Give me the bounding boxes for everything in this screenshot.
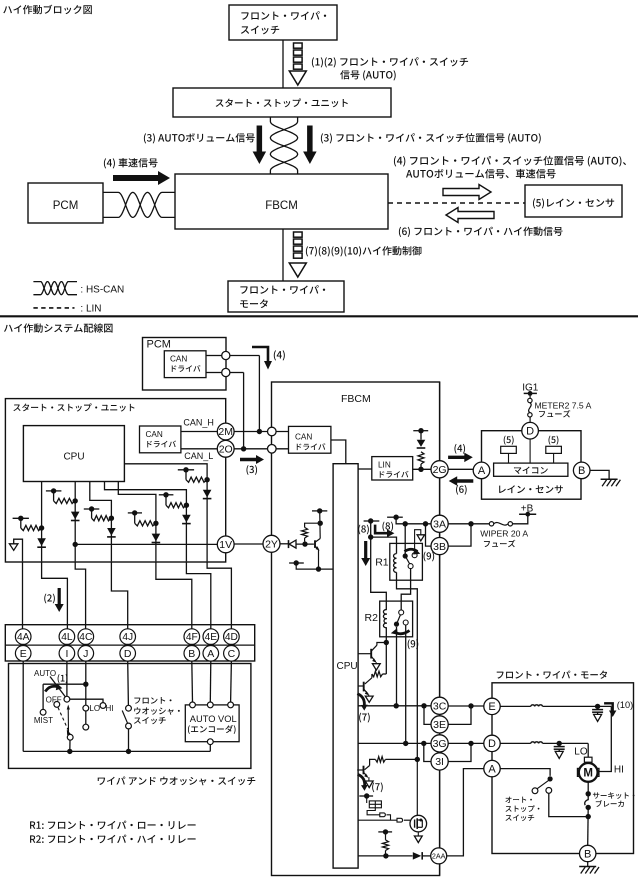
block start stop unit bbox=[173, 88, 391, 117]
svg-text:R1: R1 bbox=[375, 556, 389, 568]
dashed LIN link FBCM to rain sensor bbox=[388, 202, 525, 204]
Q5 emitter wire bbox=[318, 550, 320, 569]
arrow (8) down bbox=[361, 541, 370, 566]
wire switch to unit bbox=[282, 40, 284, 88]
junction R2 coil bbox=[384, 640, 389, 645]
svg-text:4C: 4C bbox=[79, 632, 92, 643]
pin 4F bbox=[184, 629, 200, 645]
wire fuse to D bbox=[529, 417, 531, 422]
arrow (7) upper bbox=[357, 694, 369, 723]
diode D3 bbox=[289, 540, 297, 548]
R2 contact top bbox=[399, 610, 404, 615]
junction bus 1 bbox=[67, 749, 72, 754]
svg-text:C: C bbox=[228, 648, 236, 660]
wire 3A to R1 contact bbox=[404, 524, 406, 556]
svg-text:B: B bbox=[188, 648, 195, 660]
pin 4E bbox=[203, 629, 219, 645]
wire 3G-3I edge bbox=[439, 752, 441, 753]
wire D to micon bbox=[529, 439, 531, 463]
encoder pin top3 bbox=[228, 702, 234, 708]
choke L1 bbox=[531, 705, 543, 707]
resistor R6 bbox=[383, 832, 389, 856]
arrow (6) from sensor bbox=[449, 476, 474, 495]
svg-text:A: A bbox=[207, 648, 214, 660]
wire pump to gate1 bbox=[367, 808, 380, 815]
legend R2 bbox=[30, 835, 196, 844]
wire 3C to E bbox=[448, 705, 484, 707]
wire tap to collector bbox=[319, 511, 322, 539]
wire 2G-3A edge bbox=[439, 478, 441, 516]
svg-text:CPU: CPU bbox=[337, 661, 358, 672]
legend HS-CAN twisted pair bbox=[33, 282, 124, 296]
block front wiper motor bbox=[228, 281, 344, 312]
fuse METER2 bbox=[528, 398, 532, 417]
contact MIST bbox=[40, 709, 46, 715]
rain pin A bbox=[473, 462, 490, 479]
wire CPU out 3 bbox=[90, 482, 112, 562]
lever travel dashed bbox=[58, 708, 72, 736]
svg-text:WIPER 20 A: WIPER 20 A bbox=[480, 529, 528, 539]
svg-text:2O: 2O bbox=[219, 444, 233, 456]
svg-text:HI: HI bbox=[614, 764, 624, 775]
tap emitter rail bbox=[289, 560, 304, 565]
svg-text:HI: HI bbox=[106, 704, 114, 713]
twisted pair unit to FBCM bbox=[270, 118, 297, 175]
svg-text:2G: 2G bbox=[433, 464, 447, 476]
arrow (8) bent bbox=[375, 522, 394, 538]
pin 2M bbox=[217, 423, 234, 440]
pin 3E bbox=[431, 716, 448, 733]
R1 NO wire bbox=[415, 530, 425, 553]
title block diagram bbox=[3, 5, 92, 15]
pin B switch bbox=[184, 646, 200, 662]
arrow (10) bent bbox=[604, 700, 633, 717]
section divider bbox=[0, 315, 638, 317]
wire IG1 to fuse bbox=[529, 393, 531, 398]
label CAN_L bbox=[184, 451, 213, 461]
svg-text:1V: 1V bbox=[219, 539, 232, 551]
label front wiper motor bbox=[497, 671, 607, 679]
wire 3C-3E bridge bbox=[424, 706, 431, 725]
junction HI cap bbox=[595, 704, 600, 709]
label (7)(8)(9)(10) high operation control bbox=[306, 246, 422, 256]
junction autostop bbox=[586, 814, 591, 819]
svg-text:LO: LO bbox=[89, 704, 100, 713]
svg-text:M: M bbox=[583, 768, 593, 780]
label (6) front wiper high operation signal bbox=[399, 227, 563, 237]
wire LO to motor bbox=[587, 743, 589, 757]
pullup tap bbox=[413, 428, 428, 433]
svg-text:J: J bbox=[83, 648, 88, 660]
arrow (9) R1 bbox=[405, 548, 435, 561]
junction 3C-3E bbox=[421, 703, 426, 708]
label HI bbox=[614, 764, 624, 775]
junction LO cap bbox=[557, 741, 562, 746]
svg-text:A: A bbox=[488, 764, 496, 776]
label rain sensor bbox=[499, 485, 563, 493]
label IG1 bbox=[522, 383, 539, 394]
mosfet Q4 bbox=[410, 815, 427, 832]
encoder pin top2 bbox=[207, 702, 213, 708]
resistor R4 bbox=[372, 671, 386, 677]
svg-text:3B: 3B bbox=[433, 541, 446, 553]
svg-text:: HS-CAN: : HS-CAN bbox=[80, 284, 124, 295]
start-stop unit box bbox=[5, 399, 225, 562]
Q1 emitter ground bbox=[372, 662, 380, 670]
svg-text:2Y: 2Y bbox=[265, 539, 278, 551]
Q3 emitter ground bbox=[365, 777, 373, 787]
pin 3I bbox=[431, 753, 448, 770]
R2 pivot bbox=[394, 622, 399, 627]
label (3) AUTO volume signal bbox=[144, 133, 255, 143]
encoder pin bottom bbox=[207, 739, 213, 745]
label AUTO bbox=[34, 669, 56, 678]
arrow (4) vehicle speed bbox=[113, 171, 170, 185]
LIN driver U5 bbox=[372, 457, 413, 480]
transistor Q3 bbox=[357, 759, 375, 778]
wire rail to CPU bbox=[296, 563, 333, 569]
front wiper motor box bbox=[492, 683, 634, 854]
wire to pin 4J bbox=[111, 561, 127, 629]
resistor R7 bbox=[302, 523, 320, 541]
R2 coil bbox=[383, 610, 387, 628]
arrow (4) to sensor bbox=[448, 444, 473, 462]
wire C to encoder bbox=[230, 661, 233, 702]
wire choke to HI node bbox=[543, 705, 612, 707]
transistor Q1 bbox=[358, 643, 386, 663]
pin 2G bbox=[431, 461, 448, 478]
tap pulldown bbox=[378, 829, 392, 834]
cell3 tap resistor diode bbox=[84, 506, 116, 537]
wire R1 contact to R2 bbox=[401, 569, 410, 610]
R1 contact NO bbox=[412, 553, 417, 558]
svg-text:E: E bbox=[488, 701, 495, 713]
junction MIST branch bbox=[83, 682, 88, 687]
label (1)(2) front wiper switch signal bbox=[312, 57, 468, 80]
pin 4C bbox=[78, 629, 94, 645]
wire to pin 4A bbox=[22, 561, 24, 629]
label OFF bbox=[46, 696, 62, 705]
wire motor to breaker bbox=[587, 782, 589, 800]
cell1 tap resistor diode bbox=[13, 516, 46, 548]
svg-text:E: E bbox=[20, 648, 27, 660]
wire CPU out 5 bbox=[105, 482, 187, 562]
tap Q4 gate bbox=[359, 793, 373, 798]
micon box bbox=[494, 463, 568, 476]
wire 3A-3B edge bbox=[439, 532, 441, 537]
wire diode to 2AA bbox=[423, 855, 431, 857]
wire CAN driver to pin B bbox=[206, 372, 222, 374]
svg-text:3C: 3C bbox=[433, 701, 447, 713]
capacitor C4 to ground bbox=[554, 743, 565, 758]
wire 2Y to diode bbox=[280, 543, 289, 545]
rain pin D bbox=[522, 422, 539, 439]
junction 3A-R1 bbox=[403, 521, 408, 526]
wire 3I bridge outside bbox=[448, 743, 471, 761]
arrow (3) left bbox=[253, 126, 267, 165]
svg-text:4L: 4L bbox=[61, 632, 73, 643]
tap (8) right bbox=[387, 515, 403, 520]
junction LIN bbox=[418, 467, 423, 472]
junction E-3E bbox=[468, 703, 473, 708]
contact OFF bbox=[54, 702, 60, 708]
wire CPU to 3G bbox=[358, 742, 431, 744]
washer contact bottom bbox=[126, 723, 132, 729]
svg-text:4A: 4A bbox=[17, 632, 30, 643]
svg-text:2M: 2M bbox=[218, 426, 233, 438]
pin 4L bbox=[59, 629, 75, 645]
pin 2O bbox=[217, 440, 234, 457]
wire to pin 4D bbox=[207, 561, 231, 629]
FBCM pass-through node CAN_H bbox=[268, 427, 277, 436]
FBCM box bbox=[272, 382, 440, 876]
wire A to autostop bbox=[500, 769, 550, 776]
wire LIN driver to 2G bbox=[413, 468, 432, 470]
pin 4A bbox=[15, 629, 31, 645]
wire R2 coil feed bbox=[371, 537, 387, 610]
+B rail bbox=[519, 504, 536, 517]
label CAN_H bbox=[183, 418, 214, 428]
wire 3A to fuse bbox=[448, 523, 489, 525]
FBCM right edge top bbox=[439, 382, 441, 461]
R1 coil bbox=[394, 554, 397, 573]
svg-text:A: A bbox=[478, 465, 486, 477]
svg-text:4F: 4F bbox=[186, 632, 198, 643]
wire CPU out 2 bbox=[74, 482, 76, 562]
svg-text:(10): (10) bbox=[617, 700, 633, 710]
encoder pin top1 bbox=[190, 702, 196, 708]
label (4) position+volume+speed signals bbox=[394, 156, 626, 179]
cell2 tap resistor diode bbox=[46, 488, 80, 520]
svg-text:PCM: PCM bbox=[147, 339, 171, 351]
arrow (4) bent bbox=[252, 347, 285, 370]
label (3) front wiper switch position signal bbox=[321, 133, 541, 143]
svg-text:B: B bbox=[578, 465, 585, 477]
wire diode to base bbox=[296, 543, 314, 545]
R2 contact side bbox=[403, 620, 408, 625]
tap (8) left bbox=[364, 518, 380, 523]
buffer gate 2 bbox=[397, 818, 403, 822]
junction drain line bbox=[415, 757, 420, 762]
wire CPU out 4 bbox=[118, 482, 156, 562]
wire 3I-2AA edge bbox=[439, 770, 441, 848]
wire CPU to gate2 bbox=[358, 819, 397, 821]
pin C switch bbox=[224, 646, 240, 662]
wire 3G-3I bridge bbox=[424, 743, 431, 761]
junction bus 2 bbox=[126, 749, 131, 754]
svg-text:AUTO: AUTO bbox=[34, 669, 56, 678]
pin 3C bbox=[431, 697, 448, 714]
rotary switch common contact bbox=[64, 696, 70, 702]
pin J switch bbox=[78, 646, 94, 662]
label WIPER fuse bbox=[480, 529, 528, 548]
wire CPU to 3C bbox=[358, 705, 431, 707]
wire tap to R1 coil bbox=[368, 521, 397, 554]
wire tap to 3A bbox=[396, 517, 431, 524]
wire E to ground bus bbox=[22, 661, 24, 752]
svg-text:MIST: MIST bbox=[34, 716, 53, 725]
PCM pin A bbox=[222, 351, 230, 359]
label (5) c1 bbox=[504, 436, 514, 445]
contact below LO bbox=[83, 724, 89, 730]
diode D2 bbox=[413, 852, 422, 860]
wire washer to bus bbox=[128, 729, 130, 752]
svg-text:CAN_H: CAN_H bbox=[183, 418, 214, 428]
FBCM pass-through node CAN_L bbox=[268, 445, 277, 454]
wire 2AA-corner edge bbox=[439, 864, 441, 875]
PCM box bbox=[143, 338, 227, 391]
wire 3E bridge outside bbox=[448, 706, 471, 724]
label (4) vehicle speed signal bbox=[104, 158, 158, 168]
cell6 tap resistor diode bbox=[178, 467, 212, 499]
svg-text:B: B bbox=[584, 848, 591, 860]
svg-text:3I: 3I bbox=[435, 756, 444, 768]
cell5 tap resistor diode bbox=[159, 492, 191, 524]
outline arrow (4) to rain sensor bbox=[443, 185, 491, 200]
ground bus bbox=[23, 750, 210, 752]
junction 3A-3B bbox=[423, 521, 428, 526]
junction R2-3C bbox=[394, 703, 399, 708]
wire E to choke bbox=[500, 705, 531, 707]
block PCM bbox=[28, 183, 103, 223]
capacitor C3 to ground bbox=[592, 706, 603, 721]
wire 2M to FBCM CAN driver bbox=[234, 431, 288, 433]
wire J column bbox=[85, 661, 87, 705]
svg-text:3A: 3A bbox=[433, 519, 446, 531]
svg-text:FBCM: FBCM bbox=[341, 393, 371, 405]
label front washer switch bbox=[134, 697, 180, 724]
wire to pin 4C bbox=[75, 561, 85, 629]
wire autostop to breaker bbox=[549, 793, 588, 816]
R2 arm bbox=[397, 615, 401, 625]
wire FBCM to motor bbox=[282, 229, 284, 281]
pin 3B bbox=[431, 538, 448, 555]
transistor Q5 bbox=[315, 539, 320, 551]
junction D-3I bbox=[468, 741, 473, 746]
wire 2O to FBCM CAN driver bbox=[234, 448, 288, 450]
wire CAN driver to pin A bbox=[206, 355, 222, 357]
charge pump box bbox=[367, 796, 382, 808]
wire choke to LO node bbox=[543, 742, 589, 744]
wire to pin 4L bbox=[42, 561, 68, 629]
outline arrow (6) from rain sensor bbox=[446, 208, 494, 223]
wire CPU out 6 bbox=[124, 464, 207, 562]
svg-text:LIN: LIN bbox=[378, 460, 391, 469]
block front wiper switch bbox=[229, 5, 337, 40]
arrow (3) bbox=[240, 455, 264, 475]
wire PCM-B to CAN_L bbox=[230, 373, 244, 449]
pin 2Y bbox=[263, 535, 280, 552]
wire PCM-A to CAN_H bbox=[230, 356, 260, 432]
R1 pivot bbox=[403, 553, 408, 558]
svg-text:4J: 4J bbox=[122, 632, 133, 643]
wire B to ground bbox=[590, 470, 609, 479]
junction emitter rail bbox=[316, 566, 321, 571]
label LO bbox=[574, 747, 588, 758]
svg-text:CAN_L: CAN_L bbox=[184, 451, 213, 461]
svg-text:CAN: CAN bbox=[170, 355, 187, 364]
rain pin B bbox=[573, 462, 590, 479]
wire CPU to 2AA bbox=[358, 855, 413, 857]
svg-text:2AA: 2AA bbox=[432, 852, 446, 861]
svg-text:I: I bbox=[65, 648, 68, 660]
junction CAN_H bbox=[257, 429, 262, 434]
pin 1V bbox=[217, 536, 234, 553]
FBCM CAN driver U3 bbox=[289, 426, 331, 453]
label LO bbox=[89, 704, 100, 713]
wire drain bbox=[416, 759, 418, 815]
wire breaker to B bbox=[587, 807, 590, 845]
arrow (7) lower bbox=[358, 774, 383, 792]
relay R1 bbox=[375, 543, 422, 580]
wire R2 pivot to 3C bbox=[396, 627, 398, 706]
wire D to washer switch bbox=[127, 661, 130, 706]
wire R2 coil to junction bbox=[385, 628, 387, 643]
label MIST bbox=[34, 716, 53, 725]
wire common to HI bbox=[70, 699, 103, 702]
wire A to encoder bbox=[209, 661, 212, 702]
ground motor bbox=[579, 862, 599, 874]
arrow (9) R2 bbox=[391, 628, 418, 649]
wire 3B bridge outside bbox=[448, 524, 471, 546]
R1 contact NC bbox=[408, 564, 413, 569]
pin A switch bbox=[203, 646, 219, 662]
cell4 tap resistor diode bbox=[128, 510, 160, 542]
svg-text:3E: 3E bbox=[433, 719, 446, 731]
resistor R5 bbox=[375, 757, 417, 763]
contact HI bbox=[100, 703, 106, 709]
svg-text:: LIN: : LIN bbox=[80, 303, 101, 314]
ground rain sensor bbox=[601, 479, 621, 486]
junction breaker top bbox=[586, 791, 591, 796]
pin 2AA bbox=[431, 848, 447, 864]
wiper washer switch box bbox=[9, 664, 251, 769]
wire LO to lower contact bbox=[85, 711, 87, 724]
label wiper and washer switch bbox=[98, 777, 256, 786]
wire CAN driver to 2M bbox=[181, 431, 217, 433]
svg-text:D: D bbox=[124, 648, 132, 660]
IG1 rail bbox=[524, 391, 537, 396]
wire 1V net bbox=[75, 543, 217, 545]
capacitor C1 bbox=[501, 446, 517, 463]
control arrow (7)(8)(9)(10) bbox=[289, 232, 306, 277]
transistor Q2 bbox=[358, 674, 372, 696]
wire 2G to A bbox=[448, 468, 473, 470]
washer lever bbox=[122, 711, 127, 724]
motor pin A bbox=[484, 760, 500, 776]
wire CAN driver to 2O bbox=[181, 448, 217, 450]
wire to pin 4F bbox=[156, 561, 192, 629]
motor pin E bbox=[484, 698, 500, 714]
capacitor C2 bbox=[546, 446, 562, 463]
label (5) c2 bbox=[549, 436, 559, 445]
fuse WIPER bbox=[489, 522, 512, 526]
label auto stop switch bbox=[505, 797, 539, 822]
motor M1 bbox=[577, 757, 599, 782]
wire CAN driver to CPU bbox=[331, 440, 346, 464]
wire 3E-3G edge bbox=[439, 733, 441, 735]
wire R2 coil to resistor bbox=[385, 643, 387, 675]
label circuit breaker bbox=[593, 792, 635, 807]
motor pin B bbox=[580, 845, 596, 861]
wire D to choke bbox=[500, 742, 531, 744]
svg-text:AUTO VOL: AUTO VOL bbox=[190, 714, 237, 724]
connector row box bbox=[5, 625, 254, 661]
AUTO VOL encoder box bbox=[185, 705, 239, 742]
legend LIN dashed bbox=[33, 303, 101, 314]
legend R1 bbox=[30, 821, 196, 830]
label METER2 fuse bbox=[535, 400, 592, 417]
